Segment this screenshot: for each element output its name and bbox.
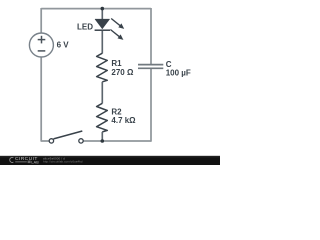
wire: left vertical lower [41,57,49,141]
wire: right vertical upper [150,8,152,64]
svg-text:6 V: 6 V [57,41,70,50]
voltage source 6 V [29,33,53,57]
wire: bottom rail [83,140,151,142]
svg-text:LED: LED [77,23,93,32]
resistor R1 [97,53,108,82]
svg-text:LAB: LAB [31,160,39,164]
node: top junction dot [101,7,105,11]
watermark logo icon [10,157,14,162]
switch lever [54,131,83,139]
svg-text:100 µF: 100 µF [166,68,191,77]
wire: right vertical lower [150,69,152,142]
resistor R2 [97,103,108,132]
node: bottom junction dot [101,139,105,143]
watermark logo lines and LAB [15,161,27,163]
svg-text:R2: R2 [111,108,122,117]
LED light arrow 1 [111,19,122,28]
svg-text:270 Ω: 270 Ω [111,68,134,77]
wire: lead R2 to bottom rail [101,132,103,141]
svg-text:R1: R1 [111,59,122,68]
watermark bar [0,156,220,165]
LED triangle [95,19,109,29]
svg-text:http://circuitlab.com/c6ua4kd: http://circuitlab.com/c6ua4kd [43,159,83,163]
switch pole circle left [49,139,53,143]
LED D1 [95,9,125,54]
wire: left vertical upper [40,8,42,33]
LED anode lead [101,9,103,20]
wire: lead R1 to R2 [101,82,103,104]
capacitor C [138,65,163,69]
LED cathode lead [101,31,103,54]
LED cathode bar [95,29,110,31]
switch SW1 [49,131,83,143]
LED light arrow 2 [110,30,121,39]
switch throw circle right [79,139,83,143]
wire: top rail [41,8,151,10]
svg-text:4.7 kΩ: 4.7 kΩ [111,116,136,125]
